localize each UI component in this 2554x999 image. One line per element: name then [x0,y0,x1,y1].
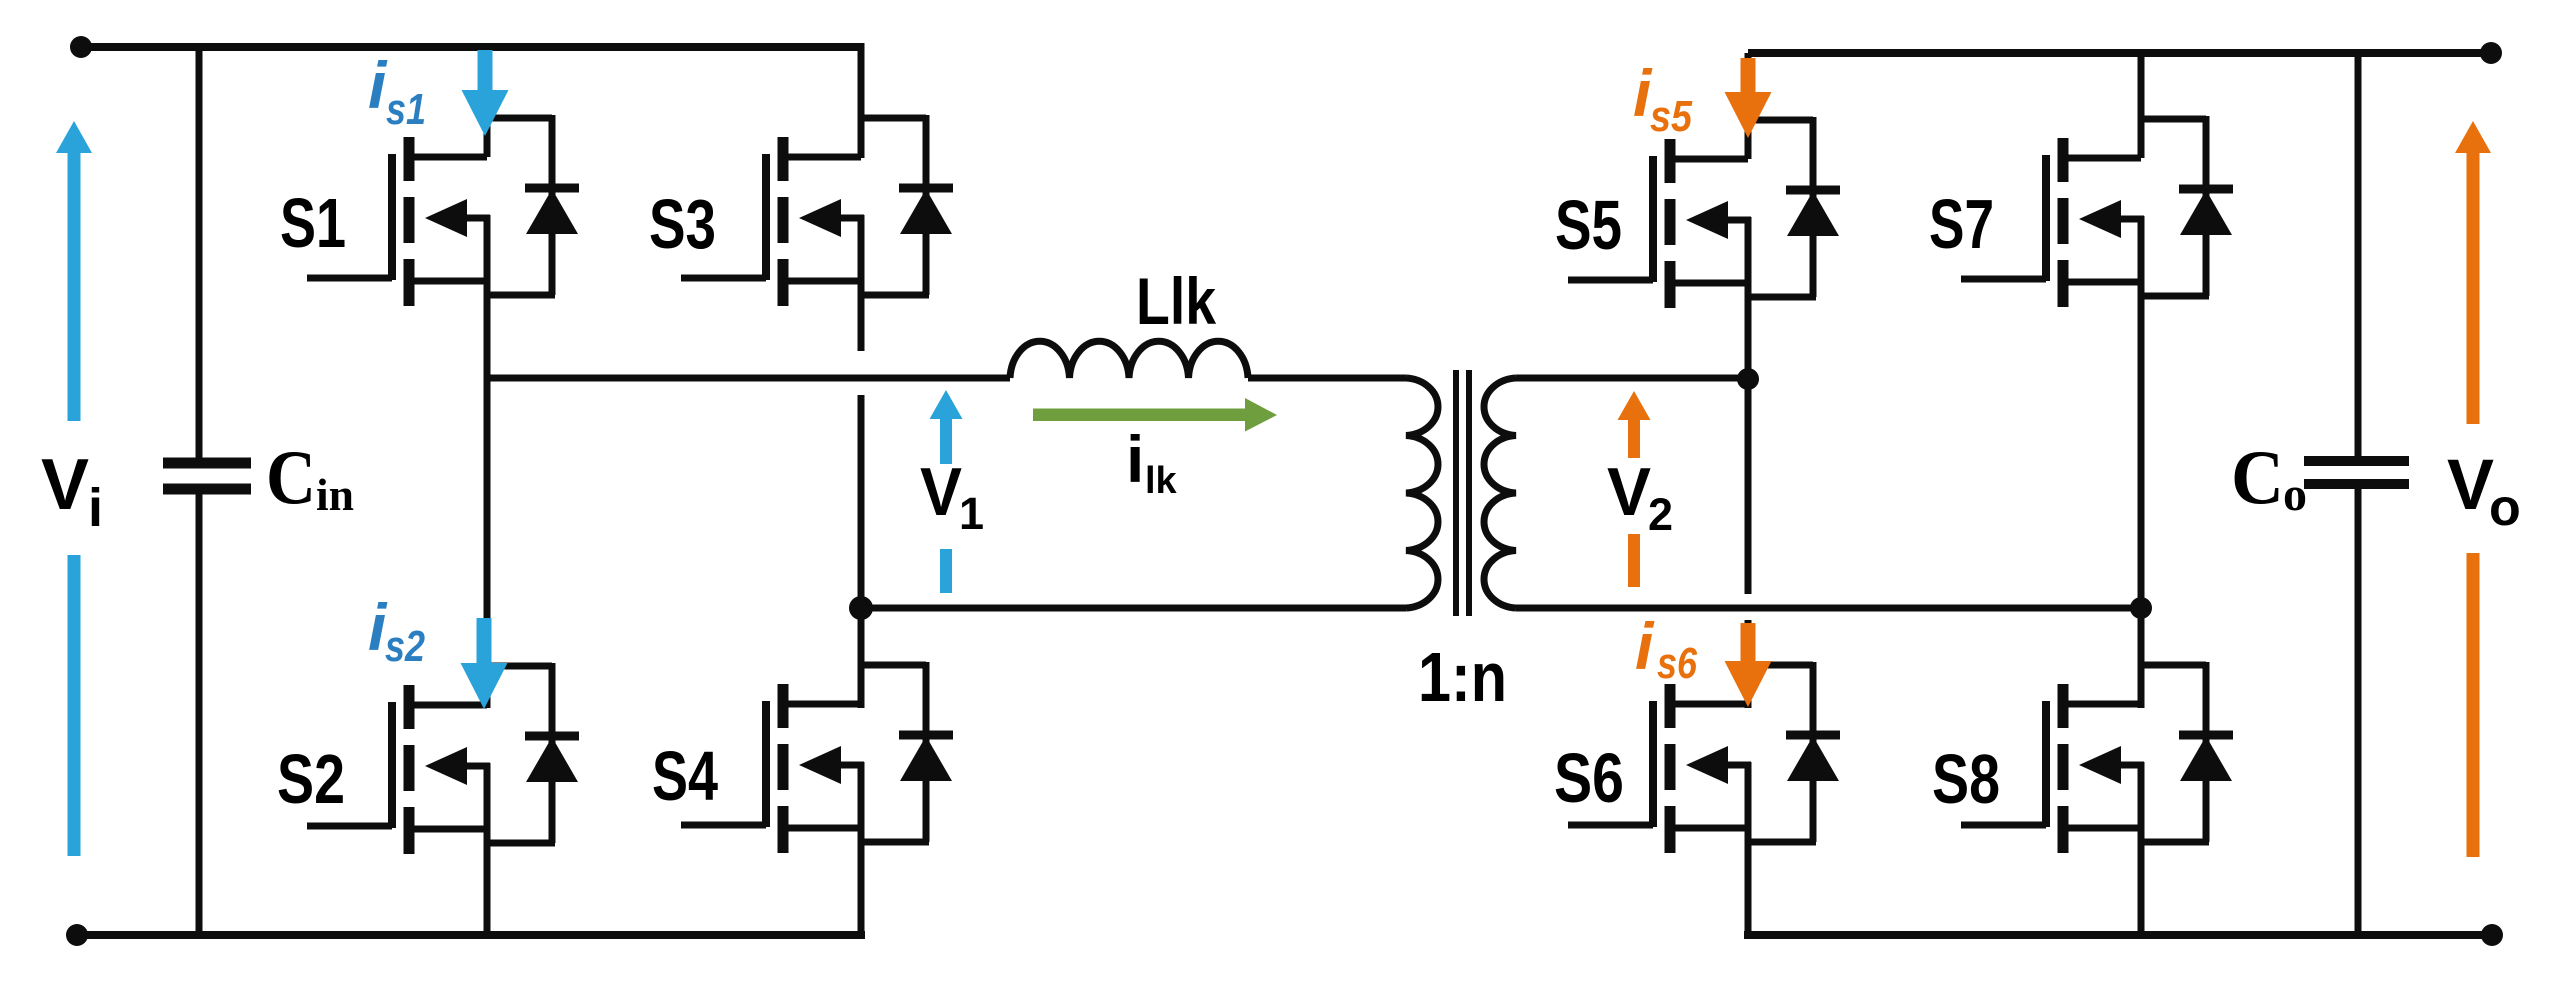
node secondary top junction at S5/S6 midpoint [1737,368,1759,390]
label is5 [1633,56,1692,141]
arrow primary voltage V1 (blue, up, dashed tail) [930,390,963,593]
svg-text:V: V [920,454,962,530]
arrow switch current is5 (orange, down) [1725,58,1772,138]
svg-text:Llk: Llk [1136,264,1216,338]
wire S7 drain from top rail [2138,53,2145,158]
svg-text:i: i [1635,609,1655,683]
capacitor Co [2231,434,2409,521]
svg-text:in: in [316,469,354,520]
transistor S5 (N-MOSFET with body diode) [1555,117,1840,308]
svg-text:C: C [266,434,316,520]
wire primary mid AC line to inductor [487,375,1010,382]
capacitor Cin [163,434,354,520]
wire S7 source to midpoint node [2138,282,2145,608]
wire top rail left bridge [80,43,861,51]
arrow output voltage Vo (orange, up) [2455,121,2491,857]
label is6 [1635,609,1697,688]
wire S5 source to midpoint node [1745,283,1752,379]
svg-text:C: C [2231,434,2284,520]
svg-text:i: i [368,48,388,122]
svg-text:S1: S1 [280,184,346,262]
svg-text:S3: S3 [649,185,716,263]
wire S3/S4 leg to midpoint node [858,395,865,608]
wire transformer primary bottom return [861,605,1406,612]
label V1 [920,454,984,539]
wire Co branch vertical [2355,53,2362,935]
node input positive terminal [70,36,92,58]
label ilk [1126,422,1178,502]
label V2 [1607,454,1673,540]
wire top rail right bridge [1748,49,2491,57]
svg-text:S4: S4 [652,737,718,815]
wire S5 drain from top rail [1745,53,1752,159]
wire S1/S2 leg vertical [484,281,491,708]
arrow leakage current ilk (green, right) [1033,398,1277,432]
transistor S7 (N-MOSFET with body diode) [1929,116,2233,307]
label is2 [368,590,425,671]
transformer T1 primary winding [1406,378,1438,608]
svg-text:1:n: 1:n [1418,638,1507,716]
arrow switch current is6 (orange, down) [1725,623,1772,707]
svg-text:o: o [2489,479,2521,537]
transistor S1 (N-MOSFET with body diode) [280,115,579,306]
svg-text:S6: S6 [1554,739,1624,817]
transformer T1 secondary winding [1484,378,1516,608]
label Vo [2447,446,2521,537]
node output negative terminal [2481,924,2503,946]
transistor S8 (N-MOSFET with body diode) [1932,662,2233,853]
svg-text:s5: s5 [1650,92,1692,141]
label is1 [368,48,426,134]
arrow switch current is1 (blue, down) [462,50,509,136]
wire S4 source to bottom rail [858,828,865,939]
svg-text:V: V [41,445,89,525]
label Vi [41,445,103,538]
svg-text:S5: S5 [1555,186,1622,264]
svg-text:V: V [2447,446,2494,525]
wire S1 drain from top rail [484,47,491,157]
node input negative terminal [66,924,88,946]
transistor S2 (N-MOSFET with body diode) [277,663,579,854]
transformer T1 core [1456,370,1469,616]
svg-text:S2: S2 [277,740,345,818]
wire S3 source upper segment (crossover gap) [858,281,865,351]
svg-text:V: V [1607,454,1651,530]
wire S6 source to bottom rail [1745,828,1752,939]
svg-text:lk: lk [1145,460,1178,502]
wire S6 drain lower segment [1745,620,1752,708]
arrow input voltage Vi (blue, up) [56,121,92,856]
wire S2 source to bottom rail [484,829,491,935]
wire S8 source to bottom rail [2138,828,2145,935]
wire S4 drain from midpoint [858,608,865,708]
wire S8 drain from midpoint [2138,608,2145,708]
svg-text:S8: S8 [1932,740,2000,818]
arrow secondary voltage V2 (orange, up, dashed tail) [1618,391,1651,587]
wire transformer secondary top lead [1516,375,1748,382]
wire bottom rail right bridge [1744,931,2492,939]
wire transformer secondary bottom lead [1516,605,2141,612]
svg-text:s6: s6 [1657,639,1697,688]
wire S6 drain upper segment (crossover gap) [1745,379,1752,594]
svg-text:i: i [1126,422,1144,496]
svg-text:s2: s2 [385,622,425,671]
node secondary bottom junction at S7/S8 midpoint [2130,597,2152,619]
svg-text:2: 2 [1648,489,1673,540]
node primary return junction [849,596,873,620]
transistor S4 (N-MOSFET with body diode) [652,662,953,853]
svg-text:o: o [2283,468,2307,521]
wire inductor to transformer primary top [1248,375,1406,382]
transformer T1 turns-ratio label 1:n [1418,638,1507,716]
wire Cin branch vertical [196,47,203,935]
wire bottom rail left bridge [76,931,865,939]
svg-text:s1: s1 [386,85,426,134]
node output positive terminal [2480,42,2502,64]
transistor S6 (N-MOSFET with body diode) [1554,662,1840,853]
inductor Llk [1010,264,1248,378]
svg-text:1: 1 [959,488,984,539]
wire S3 drain from top rail [858,43,865,158]
svg-text:S7: S7 [1929,185,1994,263]
transistor S3 (N-MOSFET with body diode) [649,115,953,306]
svg-text:i: i [88,478,103,538]
arrow switch current is2 (blue, down) [461,618,508,709]
